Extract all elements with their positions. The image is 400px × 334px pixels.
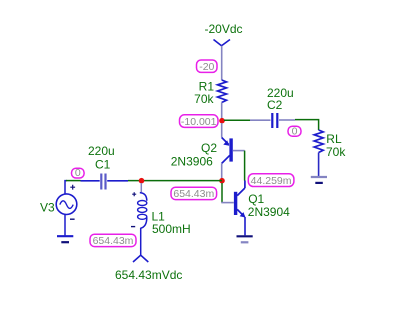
bias label (0) output [288, 125, 301, 137]
svg-text:0: 0 [292, 125, 298, 137]
wire node down to Q1 base [221, 183, 223, 203]
wire Q2 collector to input node [221, 163, 223, 180]
wire RL to ground [318, 153, 320, 177]
svg-text:70k: 70k [194, 92, 214, 106]
pin C2 left [250, 119, 271, 121]
junction node A (R1/C2/Q2) [219, 118, 225, 124]
junction node at L1 top [139, 178, 145, 184]
wire V3 to ground [64, 214, 66, 235]
wire C2 to RL corner [295, 120, 319, 130]
wire L1 to power bubble [140, 228, 142, 255]
svg-text:-20: -20 [199, 61, 214, 73]
power symbol 654.43mVdc bubble [133, 255, 148, 262]
wire node to Q2 emitter [221, 123, 223, 138]
svg-text:654.43m: 654.43m [173, 188, 214, 200]
pin L1 top [140, 183, 142, 192]
bias label (654.43m) at L1 bottom [90, 234, 136, 247]
wire Q2 base down to Q1 collector [244, 151, 246, 181]
svg-text:C2: C2 [267, 98, 283, 112]
svg-text:70k: 70k [326, 145, 346, 159]
bias label (-10.001) [180, 115, 219, 128]
svg-text:44.259m: 44.259m [251, 175, 292, 187]
ground (Q1) [237, 236, 253, 242]
resistor R1 [218, 80, 227, 103]
svg-text:C1: C1 [95, 157, 111, 171]
svg-text:500mH: 500mH [152, 222, 191, 236]
svg-text:2N3906: 2N3906 [171, 154, 213, 168]
pin Q1 base [221, 202, 234, 204]
bias label (0) at V3 [72, 167, 85, 179]
junction input node (C1/L1 wire to Q2 collector / Q1 base) [219, 178, 225, 184]
capacitor C1 [101, 174, 105, 190]
svg-text:654.43m: 654.43m [93, 235, 134, 247]
wire R1 to node [221, 103, 223, 121]
pin C1 left [81, 180, 100, 182]
power symbol -20Vdc bubble [214, 40, 231, 46]
svg-text:654.43mVdc: 654.43mVdc [115, 268, 182, 282]
inductor L1 [131, 192, 147, 228]
svg-text:V3: V3 [40, 200, 55, 214]
svg-text:Q2: Q2 [201, 141, 217, 155]
bias label (44.259m) [248, 174, 294, 187]
ground (V3) [57, 236, 73, 242]
transistor Q2 (PNP 2N3906) [222, 138, 245, 164]
svg-text:2N3904: 2N3904 [248, 205, 290, 219]
svg-text:-20Vdc: -20Vdc [204, 22, 242, 36]
ground (RL) [311, 177, 327, 183]
transistor Q1 (NPN 2N3904) [234, 181, 246, 236]
pin C2 right [279, 119, 295, 121]
pin C1 right [107, 180, 128, 182]
svg-text:0: 0 [75, 167, 81, 179]
wire C1 to input node [128, 180, 222, 182]
svg-text:RL: RL [326, 132, 342, 146]
svg-text:220u: 220u [88, 144, 115, 158]
wire V3 to C1 [65, 181, 81, 194]
capacitor C2 [272, 113, 277, 128]
bias label (-20) [197, 60, 218, 73]
source V3 (VSIN) [56, 185, 77, 219]
resistor RL [314, 130, 323, 153]
wire node to C2 [224, 119, 250, 121]
bias label (654.43m) at input node [171, 187, 217, 200]
svg-text:-10.001: -10.001 [181, 116, 217, 128]
wire power to R1 [221, 46, 223, 80]
